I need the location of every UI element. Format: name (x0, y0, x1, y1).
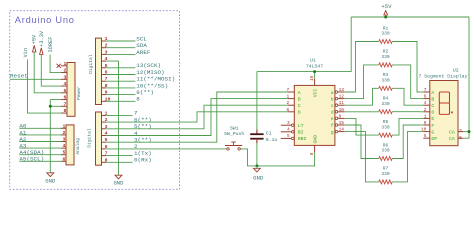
svg-text:CA: CA (449, 129, 455, 135)
svg-text:8: 8 (136, 96, 140, 103)
svg-text:1: 1 (286, 94, 289, 100)
svg-text:Digital: Digital (86, 128, 92, 148)
digital upper pin 9 (102, 94, 107, 96)
svg-text:a: a (331, 91, 334, 96)
svg-text:6: 6 (424, 94, 427, 100)
wire IC output f to R6 (345, 125, 379, 159)
IC pin 14 output g with bubble (335, 130, 338, 133)
no-connect X on power pin 1 (57, 64, 61, 68)
power header pin 3 (61, 78, 67, 80)
svg-text:+3.3V: +3.3V (39, 30, 45, 47)
wire digital GND pin to ground (106, 61, 118, 175)
svg-text:R7: R7 (383, 166, 389, 172)
wire IC output e to R5 (345, 118, 379, 135)
analog pin 3 wire (19, 141, 61, 143)
display pin 4 segment C (423, 104, 430, 106)
svg-text:2: 2 (424, 107, 427, 113)
svg-text:7: 7 (424, 87, 427, 93)
net stub digital pin 1(Tx) (106, 155, 132, 157)
wire R2 to display segment B (392, 65, 420, 99)
power header pin 5 (61, 92, 67, 94)
power header pin 2 (61, 72, 67, 74)
digital lower pin 4 (102, 135, 107, 137)
svg-text:3: 3 (64, 74, 67, 80)
display pin 2 segment D (423, 111, 430, 113)
digital lower pin 2 (102, 121, 107, 123)
svg-text:Analog: Analog (75, 138, 81, 155)
connector Digital header lower (96, 112, 102, 165)
svg-text:D: D (298, 110, 301, 116)
wire digital 6(**) to 74LS47 input D (106, 112, 287, 122)
wire power GND pins to ground (50, 99, 61, 101)
digital upper pin 3 (102, 53, 107, 55)
connector Digital header upper (96, 38, 102, 104)
wire digital 5(**) to 74LS47 input C (106, 105, 287, 129)
svg-text:Digital: Digital (88, 54, 94, 74)
IC pin 15 output f with bubble (335, 124, 338, 127)
wire R3 to display segment C (392, 88, 420, 105)
digital upper pin 6 (102, 74, 107, 76)
svg-text:F: F (431, 123, 434, 129)
svg-text:R1: R1 (383, 25, 389, 31)
junction ground rail (255, 164, 258, 167)
svg-text:330: 330 (381, 171, 390, 177)
wire R7 to display segment G (392, 132, 420, 182)
svg-text:7: 7 (64, 101, 67, 107)
svg-text:10: 10 (339, 107, 345, 113)
svg-text:330: 330 (381, 54, 390, 60)
junction power GND (49, 105, 52, 108)
capacitor C1 plates (250, 133, 263, 135)
svg-text:e: e (331, 117, 334, 122)
svg-text:7: 7 (286, 87, 289, 93)
svg-text:3: 3 (63, 137, 66, 143)
power header pin 7 (61, 105, 67, 107)
wire IOREF to power pin 2 (50, 55, 61, 73)
IC pin 7 input A (288, 91, 295, 93)
svg-text:5: 5 (424, 133, 427, 139)
net stub digital upper row 5 (106, 67, 135, 69)
net stub digital upper row 9 (106, 94, 135, 96)
digital upper pin 10 (102, 100, 107, 102)
resistor R7 330 (379, 180, 392, 184)
wire IC output a to R1 (345, 42, 379, 93)
IC pin 2 input C (288, 104, 295, 106)
svg-text:IOREF: IOREF (48, 37, 54, 53)
power header pin 8 (61, 112, 67, 114)
svg-text:330: 330 (381, 31, 390, 37)
IC pin 5 input RBI with bubble (281, 137, 292, 139)
wire +3.3V to power pin 4 (41, 55, 61, 87)
svg-text:1: 1 (64, 61, 67, 67)
net stub digital upper row 7 (106, 80, 135, 82)
svg-text:330: 330 (381, 148, 390, 154)
svg-text:C: C (298, 103, 301, 109)
analog pin 2 wire (19, 134, 61, 136)
svg-text:A: A (431, 90, 434, 96)
svg-text:d: d (331, 110, 334, 116)
digital lower pin 7 (102, 155, 107, 157)
wire C1 bottom to ground rail (256, 143, 258, 166)
svg-text:C: C (431, 103, 434, 109)
svg-text:12: 12 (339, 94, 345, 100)
svg-text:11: 11 (339, 100, 345, 106)
svg-text:5: 5 (64, 88, 67, 94)
IC pin 8 GND stub (314, 145, 316, 152)
net stub digital upper row 3 (106, 53, 135, 55)
svg-text:VCC: VCC (312, 88, 318, 97)
wire R6 to display segment F (392, 125, 420, 159)
svg-text:Power: Power (76, 86, 82, 100)
wire digital 3(**) to 74LS47 input A (106, 92, 287, 142)
wire IC GND to ground rail (257, 152, 315, 166)
digital lower pin 8 (102, 161, 107, 163)
svg-text:Vin: Vin (23, 48, 29, 58)
IC pin 12 output b with bubble (335, 97, 338, 100)
wire switch to ground rail (241, 149, 257, 166)
svg-text:R4: R4 (383, 96, 389, 102)
svg-text:330: 330 (381, 124, 390, 130)
IC pin 13 output a with bubble (335, 91, 338, 94)
display pin 7 segment A (423, 91, 430, 93)
svg-text:14: 14 (339, 127, 345, 133)
svg-text:13: 13 (339, 87, 345, 93)
svg-text:4: 4 (424, 100, 427, 106)
net stub digital upper row 8 (106, 87, 135, 89)
svg-text:G: G (431, 129, 434, 135)
svg-text:BI: BI (298, 130, 304, 136)
svg-text:3: 3 (459, 128, 462, 134)
wire IC output c to R3 (345, 88, 379, 105)
svg-text:330: 330 (381, 101, 390, 107)
svg-text:5: 5 (63, 150, 66, 156)
digital upper pin 8 (102, 87, 107, 89)
svg-text:R6: R6 (383, 142, 389, 148)
digital upper pin 2 (102, 47, 107, 49)
svg-text:1: 1 (424, 113, 427, 119)
svg-text:GND: GND (312, 135, 318, 144)
display pin 3 common anode CA (458, 131, 463, 133)
display pin 6 segment B (423, 98, 430, 100)
digital upper pin 1 (102, 40, 107, 42)
ground symbol below digital header (115, 175, 122, 179)
svg-text:0(Rx): 0(Rx) (134, 157, 152, 164)
svg-text:GND: GND (113, 180, 124, 187)
svg-text:GND: GND (253, 175, 264, 182)
svg-text:SW_Push: SW_Push (224, 131, 244, 137)
analog pin 6 wire (19, 160, 61, 162)
svg-text:b: b (331, 96, 334, 102)
svg-text:A: A (298, 90, 301, 96)
display pin 9 segment F (423, 124, 430, 126)
svg-text:R2: R2 (383, 49, 389, 55)
display pin 8 common anode CA (458, 137, 463, 139)
power header pin 6 (61, 99, 67, 101)
net stub digital upper row 2 (106, 47, 135, 49)
svg-text:B: B (298, 96, 301, 102)
power header pin 4 (61, 85, 67, 87)
svg-text:1: 1 (63, 123, 66, 129)
wire C1 top from VCC rail (256, 72, 258, 130)
analog pin 1 wire (19, 127, 61, 129)
switch SW1 push button (227, 148, 229, 150)
wire +5V drop to IC VCC and C1 (257, 17, 351, 72)
svg-text:f: f (331, 123, 334, 129)
svg-text:9: 9 (424, 120, 427, 126)
svg-text:7 Segment Display: 7 Segment Display (419, 74, 468, 80)
resistor R3 330 (379, 86, 392, 90)
digital upper pin 5 (102, 67, 107, 69)
svg-text:2: 2 (63, 130, 66, 136)
svg-text:6: 6 (63, 156, 66, 162)
svg-text:g: g (331, 130, 334, 135)
svg-text:B: B (431, 96, 434, 102)
svg-text:Arduino Uno: Arduino Uno (15, 15, 75, 25)
wire digital 2 to switch SW1 (106, 148, 226, 150)
svg-text:+5V: +5V (31, 34, 37, 44)
svg-text:4: 4 (287, 126, 290, 132)
svg-text:Reset: Reset (10, 72, 28, 79)
digital lower pin 3 (102, 128, 107, 130)
svg-text:DP: DP (431, 136, 437, 142)
svg-text:LT: LT (298, 123, 304, 129)
analog pin 5 wire (19, 154, 61, 156)
junction CA rail (468, 130, 471, 133)
svg-text:SW1: SW1 (230, 126, 239, 132)
IC pin 4 input BI with bubble (281, 131, 292, 133)
svg-text:+5V: +5V (381, 3, 392, 10)
IC pin 16 VCC stub (314, 79, 316, 86)
svg-text:RBI: RBI (298, 136, 307, 142)
ground symbol left (47, 173, 54, 177)
junction IC VCC (313, 70, 316, 73)
display pin 10 segment G (423, 131, 430, 133)
svg-text:c: c (331, 104, 334, 109)
svg-text:9: 9 (339, 113, 342, 119)
digital upper pin 7 (102, 80, 107, 82)
display U2 body (430, 81, 458, 146)
net stub digital upper row 10 (106, 100, 135, 102)
digital lower pin 1 (102, 114, 107, 116)
svg-text:0.1u: 0.1u (266, 137, 278, 143)
svg-text:8: 8 (64, 108, 67, 114)
Arduino Uno module dashed frame (10, 11, 180, 190)
connector Power header (67, 63, 75, 117)
wire Vin to power pin 8 (28, 60, 61, 114)
wire R5 to display segment E (392, 118, 420, 135)
power header pin 1 (61, 65, 67, 67)
svg-text:8: 8 (309, 152, 315, 155)
wire IC output b to R2 (345, 65, 379, 99)
IC pin 6 input D (288, 111, 295, 113)
svg-text:U2: U2 (453, 68, 459, 74)
ground symbol center (254, 168, 261, 172)
IC pin 10 output d with bubble (335, 111, 338, 114)
IC pin 9 output e with bubble (335, 117, 338, 120)
wire Reset to power pin 3 (10, 78, 61, 80)
IC pin 1 input B (288, 98, 295, 100)
svg-text:CA: CA (449, 136, 455, 142)
connector Analog header (66, 125, 74, 165)
svg-text:8: 8 (459, 135, 462, 141)
IC pin 11 output c with bubble (335, 104, 338, 107)
svg-text:2: 2 (286, 100, 289, 106)
wire display CA upper stub (463, 131, 469, 133)
svg-text:3: 3 (287, 120, 290, 126)
capacitor C1 bottom lead (256, 139, 258, 144)
svg-text:4: 4 (63, 143, 66, 149)
wire R1 to display segment A (392, 42, 420, 93)
digital lower pin 6 (102, 148, 107, 150)
svg-text:2: 2 (64, 68, 67, 74)
svg-text:16: 16 (309, 75, 315, 81)
capacitor C1 top lead (256, 130, 258, 135)
svg-text:330: 330 (381, 78, 390, 84)
junction +5V rail (384, 16, 387, 19)
display pin 1 segment E (423, 117, 430, 119)
analog pin 4 wire (19, 147, 61, 149)
IC pin 3 input LT with bubble (281, 124, 292, 126)
display pin 5 segment DP (423, 137, 430, 139)
wire IC output g to R7 (345, 132, 379, 182)
net stub digital upper row 6 (106, 74, 135, 76)
resistor R6 330 (379, 157, 392, 161)
wire +5V rail top (351, 16, 469, 18)
resistor R1 330 (379, 40, 392, 44)
resistor R4 330 (379, 110, 392, 114)
wire IC output d to R4 to display D (345, 111, 379, 113)
svg-text:E: E (431, 116, 434, 122)
resistor R2 330 (379, 63, 392, 67)
IC U1 74LS47 body (294, 85, 335, 145)
svg-text:AREF: AREF (136, 49, 151, 56)
svg-text:4: 4 (64, 81, 67, 87)
svg-text:74LS47: 74LS47 (306, 64, 323, 70)
svg-text:D: D (431, 110, 434, 116)
svg-text:R5: R5 (383, 119, 389, 125)
wire +5V to power pin 5 (34, 52, 61, 93)
svg-text:C1: C1 (266, 131, 272, 137)
digital upper pin 4 (102, 60, 107, 62)
svg-text:6: 6 (286, 107, 289, 113)
svg-text:R3: R3 (383, 72, 389, 78)
svg-text:15: 15 (339, 120, 345, 126)
svg-text:A5(SCL): A5(SCL) (19, 156, 44, 163)
net stub digital pin 7 (106, 114, 132, 116)
svg-text:6: 6 (64, 95, 67, 101)
net stub digital upper row 1 (106, 40, 135, 42)
svg-text:5: 5 (287, 133, 290, 139)
resistor R5 330 (379, 133, 392, 137)
net stub digital pin 0(Rx) (106, 161, 132, 163)
display seven segment digit 8 (439, 92, 453, 114)
svg-text:U1: U1 (310, 57, 316, 63)
wire +5V drop to display CA (463, 17, 469, 138)
digital lower pin 5 (102, 141, 107, 143)
wire digital 4 to 74LS47 input B (106, 99, 287, 136)
svg-text:GND: GND (45, 178, 56, 185)
